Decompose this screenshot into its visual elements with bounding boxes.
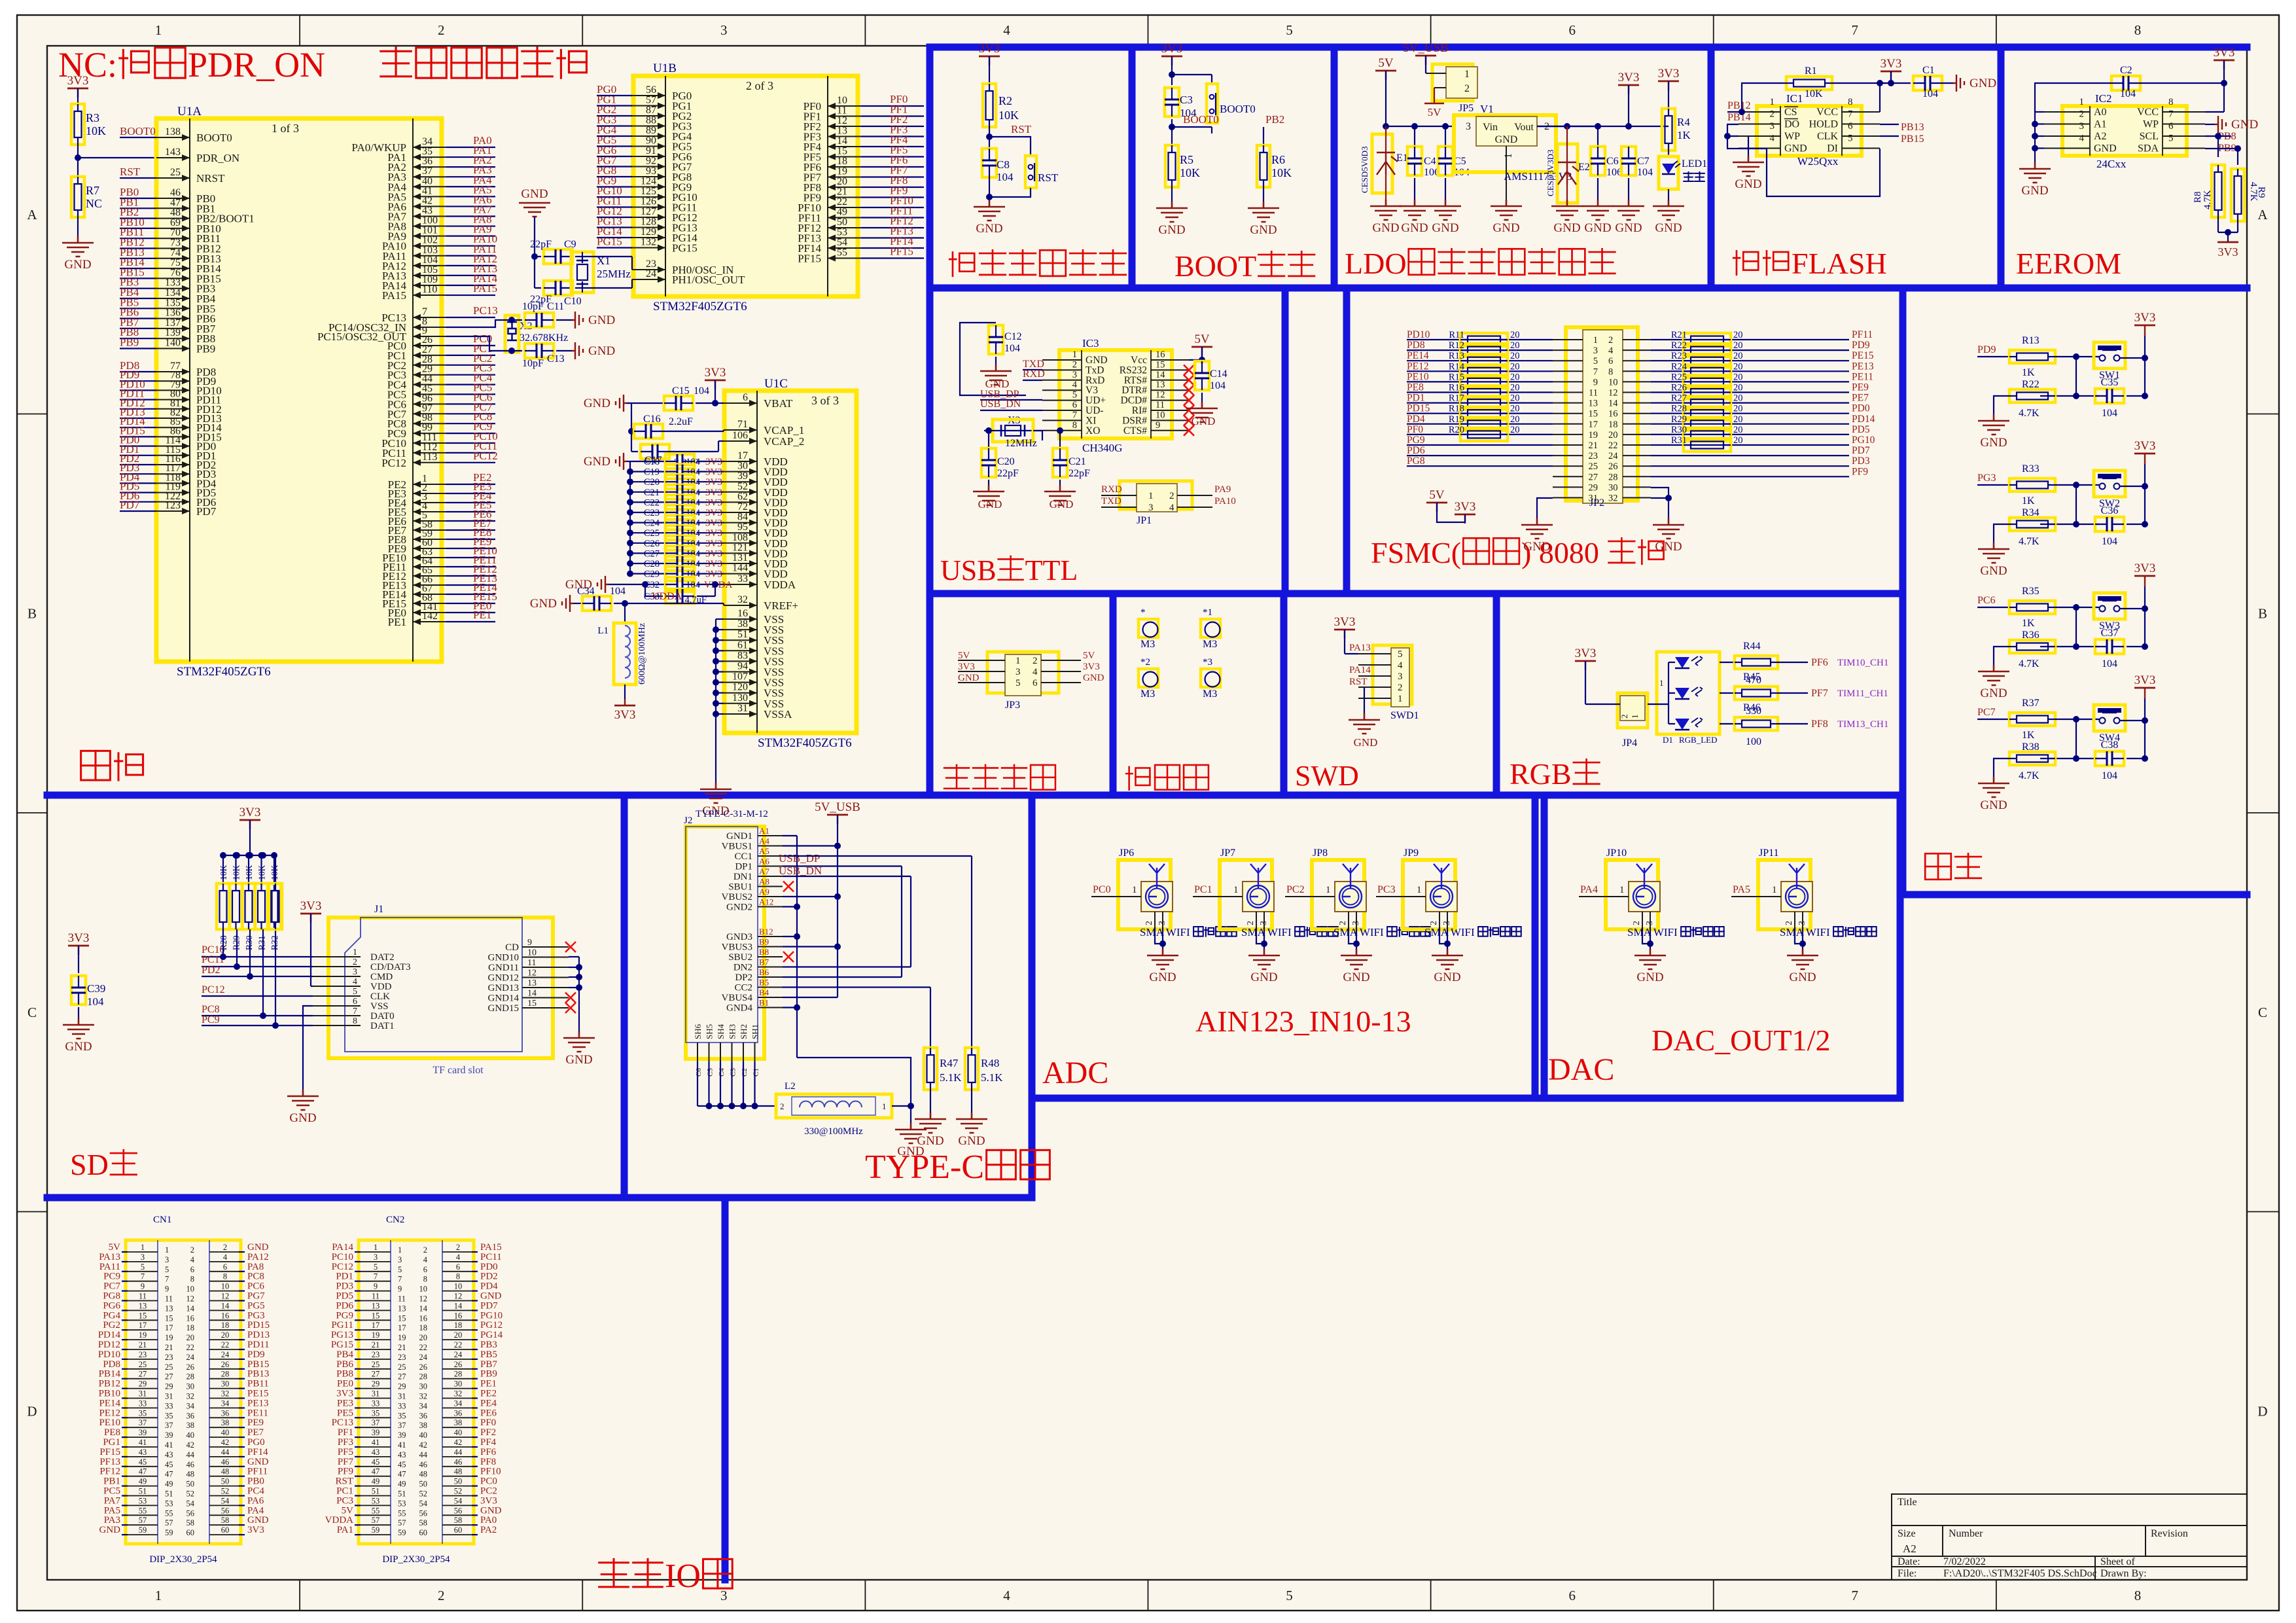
resistor R34 4.7K xyxy=(2040,524,2099,525)
svg-text:54: 54 xyxy=(221,1496,230,1505)
ground under C12 xyxy=(980,365,1012,385)
capacitor C20 104 xyxy=(627,478,633,485)
svg-text:11: 11 xyxy=(165,1294,173,1304)
svg-text:2: 2 xyxy=(190,1245,194,1255)
svg-text:PA5: PA5 xyxy=(1733,884,1750,895)
svg-text:C24: C24 xyxy=(644,518,660,529)
svg-text:20: 20 xyxy=(1733,361,1743,372)
svg-text:1: 1 xyxy=(1630,715,1640,719)
resistor R45 330 xyxy=(1720,692,1735,694)
svg-text:GND: GND xyxy=(1735,177,1761,191)
svg-text:PE11: PE11 xyxy=(1852,371,1873,382)
svg-text:10: 10 xyxy=(837,95,847,106)
svg-text:95: 95 xyxy=(737,522,748,533)
svg-text:27: 27 xyxy=(165,1372,173,1382)
svg-text:2: 2 xyxy=(1429,921,1439,925)
svg-text:CMD: CMD xyxy=(370,972,393,982)
svg-text:C37: C37 xyxy=(2101,628,2119,639)
svg-text:19: 19 xyxy=(837,166,847,177)
wire 3V3 to R3 xyxy=(77,88,79,105)
svg-text:31: 31 xyxy=(1589,493,1598,504)
svg-text:28: 28 xyxy=(186,1372,195,1382)
svg-text:39: 39 xyxy=(398,1431,406,1440)
svg-text:16: 16 xyxy=(419,1313,428,1323)
svg-text:8: 8 xyxy=(2134,1588,2142,1603)
svg-text:GND: GND xyxy=(976,222,1002,236)
svg-text:20: 20 xyxy=(1510,425,1520,435)
svg-text:32: 32 xyxy=(1608,493,1618,504)
svg-text:23: 23 xyxy=(372,1350,380,1359)
svg-text:15: 15 xyxy=(527,999,537,1008)
svg-text:7/02/2022: 7/02/2022 xyxy=(1943,1556,1986,1567)
svg-text:1: 1 xyxy=(155,1588,162,1603)
svg-text:25: 25 xyxy=(139,1360,147,1369)
svg-text:14: 14 xyxy=(186,1304,195,1313)
svg-text:GND11: GND11 xyxy=(488,963,519,973)
svg-text:C2: C2 xyxy=(741,1068,749,1077)
svg-text:PB13: PB13 xyxy=(247,1369,269,1380)
svg-text:GND: GND xyxy=(584,397,610,410)
svg-text:31: 31 xyxy=(372,1389,380,1399)
svg-text:PD2: PD2 xyxy=(202,965,220,976)
svg-text:Vout: Vout xyxy=(1514,122,1534,133)
svg-text:VCC: VCC xyxy=(1816,107,1838,118)
capacitor C19 104 xyxy=(627,469,633,475)
reset button xyxy=(1025,156,1036,188)
svg-text:3V3: 3V3 xyxy=(247,1525,264,1535)
svg-text:PA9: PA9 xyxy=(1214,484,1231,495)
svg-text:55: 55 xyxy=(165,1508,173,1518)
svg-text:PD8: PD8 xyxy=(1407,340,1425,351)
svg-text:PE4: PE4 xyxy=(480,1398,497,1408)
svg-text:C: C xyxy=(27,1005,37,1020)
svg-text:34: 34 xyxy=(186,1401,195,1410)
jumper JP5 xyxy=(1432,64,1473,101)
svg-text:600Ω@100MHz: 600Ω@100MHz xyxy=(637,623,647,685)
svg-text:File:: File: xyxy=(1898,1568,1916,1579)
svg-text:29: 29 xyxy=(1589,482,1598,493)
svg-text:38: 38 xyxy=(737,618,748,630)
svg-text:5: 5 xyxy=(141,1262,145,1272)
svg-text:4: 4 xyxy=(2079,134,2085,144)
svg-text:PA8: PA8 xyxy=(247,1262,264,1272)
svg-text:C4: C4 xyxy=(1424,156,1436,167)
svg-text:49: 49 xyxy=(372,1477,380,1486)
svg-text:C27: C27 xyxy=(644,548,660,559)
svg-text:50: 50 xyxy=(454,1477,463,1486)
jumper JP3 xyxy=(987,652,1059,693)
svg-text:PD6: PD6 xyxy=(1407,445,1425,456)
svg-text:3V3: 3V3 xyxy=(2134,439,2156,453)
svg-text:PF9: PF9 xyxy=(1852,466,1868,477)
svg-text:JP6: JP6 xyxy=(1119,847,1134,859)
ground boot xyxy=(1156,202,1188,222)
CC2 wire to R47 xyxy=(783,986,930,988)
wire R36 to ground xyxy=(1994,647,2009,665)
svg-text:PD5: PD5 xyxy=(1852,424,1870,435)
svg-text:R11: R11 xyxy=(1449,330,1464,340)
resistor R33 1K xyxy=(2009,478,2055,491)
svg-text:PA1: PA1 xyxy=(337,1525,353,1535)
svg-text:104: 104 xyxy=(1210,380,1226,391)
svg-text:GND: GND xyxy=(247,1242,269,1253)
decoupling caps C18-C29 with 3V3 flags xyxy=(627,461,630,462)
svg-text:20: 20 xyxy=(1733,372,1743,382)
resistor R19 20 xyxy=(1460,418,1508,431)
svg-text:14: 14 xyxy=(221,1301,230,1310)
svg-text:5V: 5V xyxy=(958,651,970,661)
svg-text:5V: 5V xyxy=(342,1505,354,1516)
svg-text:23: 23 xyxy=(165,1353,173,1362)
resistor R8 4.7K xyxy=(2217,136,2219,157)
svg-text:107: 107 xyxy=(732,671,748,683)
svg-text:20: 20 xyxy=(1733,351,1743,361)
svg-text:C6: C6 xyxy=(695,1068,703,1077)
svg-text:22: 22 xyxy=(1608,440,1618,451)
svg-text:DIP_2X30_2P54: DIP_2X30_2P54 xyxy=(149,1554,217,1565)
svg-text:18: 18 xyxy=(837,156,847,167)
capacitor C20 22pF xyxy=(981,448,996,477)
resistor R2 10K xyxy=(983,84,996,127)
svg-text:37: 37 xyxy=(372,1418,380,1427)
svg-text:DAC: DAC xyxy=(1548,1052,1614,1087)
ground SW1 xyxy=(1978,414,2009,435)
wires sd gnd right rail xyxy=(569,956,579,957)
svg-text:IO: IO xyxy=(665,1558,701,1595)
svg-text:LDO: LDO xyxy=(1345,247,1407,280)
svg-text:49: 49 xyxy=(139,1477,147,1486)
svg-text:PG8: PG8 xyxy=(103,1291,120,1302)
svg-text:22pF: 22pF xyxy=(530,239,552,250)
svg-text:GND: GND xyxy=(588,344,615,358)
svg-text:R27: R27 xyxy=(1671,393,1687,404)
svg-text:GND15: GND15 xyxy=(488,1003,520,1014)
svg-text:12: 12 xyxy=(419,1294,428,1304)
svg-text:30: 30 xyxy=(737,461,748,472)
svg-text:PF6: PF6 xyxy=(480,1447,497,1457)
svg-text:R46: R46 xyxy=(1743,702,1761,713)
svg-text:4: 4 xyxy=(1072,380,1078,390)
svg-text:B8: B8 xyxy=(759,947,769,957)
svg-text:USB_DN: USB_DN xyxy=(980,399,1021,410)
svg-text:GND: GND xyxy=(1250,223,1277,237)
svg-text:58: 58 xyxy=(454,1516,463,1525)
svg-text:5: 5 xyxy=(398,1265,402,1274)
svg-text:8: 8 xyxy=(423,1275,427,1284)
svg-text:PB2: PB2 xyxy=(1265,113,1284,126)
svg-text:2: 2 xyxy=(1072,359,1077,370)
wire C9 C10 left rail xyxy=(534,217,535,288)
svg-text:PA14: PA14 xyxy=(1349,665,1371,675)
svg-text:8: 8 xyxy=(456,1272,460,1281)
svg-text:TIM11_CH1: TIM11_CH1 xyxy=(1837,688,1888,699)
svg-text:4: 4 xyxy=(1033,667,1038,677)
svg-text:1K: 1K xyxy=(2022,730,2035,741)
svg-text:5: 5 xyxy=(353,987,357,997)
wire swd gnd xyxy=(1364,687,1365,713)
svg-text:C1: C1 xyxy=(752,1068,760,1077)
svg-text:12: 12 xyxy=(527,969,537,978)
svg-text:16: 16 xyxy=(1608,409,1618,419)
svg-text:TIM10_CH1: TIM10_CH1 xyxy=(1837,658,1888,668)
svg-text:10: 10 xyxy=(454,1282,463,1291)
svg-text:43: 43 xyxy=(139,1448,147,1457)
svg-text:44: 44 xyxy=(186,1450,195,1459)
svg-text:R4: R4 xyxy=(1677,116,1690,128)
wire R3 to junction and PDR_ON xyxy=(77,145,79,177)
svg-text:29: 29 xyxy=(398,1382,406,1391)
svg-text:R44: R44 xyxy=(1743,641,1761,652)
svg-text:20: 20 xyxy=(1733,393,1743,404)
svg-text:STM32F405ZGT6: STM32F405ZGT6 xyxy=(758,736,852,750)
svg-text:92: 92 xyxy=(646,156,656,167)
svg-text:BOOT0: BOOT0 xyxy=(196,132,232,144)
svg-text:2: 2 xyxy=(1398,683,1403,693)
svg-text:C38: C38 xyxy=(2101,740,2119,751)
svg-text:12MHz: 12MHz xyxy=(1005,438,1037,449)
capacitor C25 104 xyxy=(627,529,633,536)
svg-text:41: 41 xyxy=(139,1438,147,1447)
LDO output rail xyxy=(1564,123,1570,130)
svg-text:51: 51 xyxy=(165,1489,173,1499)
svg-text:PD13: PD13 xyxy=(247,1330,270,1340)
svg-text:WP: WP xyxy=(1784,131,1800,142)
svg-text:4: 4 xyxy=(190,1255,195,1264)
svg-text:30: 30 xyxy=(419,1382,428,1391)
svg-text:CLK: CLK xyxy=(1817,131,1838,142)
svg-text:PD0: PD0 xyxy=(1852,403,1870,414)
svg-text:PG15: PG15 xyxy=(597,236,622,248)
svg-text:47: 47 xyxy=(372,1467,380,1476)
resistor R31 20 xyxy=(1684,438,1731,452)
svg-text:57: 57 xyxy=(165,1518,173,1527)
svg-text:GND: GND xyxy=(1354,736,1378,749)
svg-text:20: 20 xyxy=(1733,383,1743,393)
svg-text:C14: C14 xyxy=(1210,368,1227,380)
svg-text:C29: C29 xyxy=(644,569,660,580)
capacitor C24 104 xyxy=(627,520,633,526)
capacitor C36 104 xyxy=(2095,517,2124,531)
svg-text:20: 20 xyxy=(1733,330,1743,340)
svg-text:C5: C5 xyxy=(707,1068,715,1077)
no connect marks on CD GND14 GND15 xyxy=(565,942,576,952)
svg-text:8: 8 xyxy=(1072,420,1077,431)
resistor R31 10K sd pullup xyxy=(258,852,265,859)
svg-text:45: 45 xyxy=(165,1460,173,1469)
jumper JP4 xyxy=(1617,693,1648,728)
capacitor C7 104 xyxy=(1621,147,1636,175)
svg-text:GND: GND xyxy=(480,1291,502,1302)
svg-text:10K: 10K xyxy=(219,865,228,881)
svg-text:PC13: PC13 xyxy=(332,1418,353,1428)
svg-text:L2: L2 xyxy=(785,1081,796,1092)
svg-text:7: 7 xyxy=(1852,22,1859,38)
svg-text:15: 15 xyxy=(372,1311,380,1320)
svg-text:GND: GND xyxy=(1372,221,1399,235)
svg-text:GND: GND xyxy=(1083,673,1104,683)
pullup connection dots sd xyxy=(222,929,224,957)
svg-text:15: 15 xyxy=(1156,359,1165,370)
svg-text:SMA WIFI: SMA WIFI xyxy=(1627,926,1678,938)
resistor R26 20 xyxy=(1684,386,1731,399)
ground eeprom xyxy=(2019,162,2051,183)
svg-text:DP2: DP2 xyxy=(735,972,752,983)
resistor R3 xyxy=(71,104,84,145)
svg-text:54: 54 xyxy=(186,1499,195,1508)
svg-text:46: 46 xyxy=(419,1460,428,1469)
svg-text:3: 3 xyxy=(1398,671,1403,682)
svg-text:JP7: JP7 xyxy=(1220,847,1235,859)
svg-text:CTS#: CTS# xyxy=(1123,425,1147,437)
svg-text:GND: GND xyxy=(1784,143,1807,154)
svg-text:20: 20 xyxy=(1510,340,1520,351)
resistor R14 20 xyxy=(1460,365,1508,378)
svg-text:20: 20 xyxy=(1510,414,1520,425)
svg-text:26: 26 xyxy=(1608,461,1618,472)
svg-text:GND: GND xyxy=(521,187,548,201)
svg-text:51: 51 xyxy=(139,1487,147,1496)
wire switch to 3V3 rail xyxy=(2120,608,2145,609)
wire JP7 to ground xyxy=(1256,927,1264,944)
capacitor C39 104 xyxy=(71,976,86,1005)
capacitor C9 22pF xyxy=(544,249,573,264)
wire pin30-32 to gnd right xyxy=(1651,488,1669,518)
svg-text:CESD3V3D3: CESD3V3D3 xyxy=(1545,149,1555,196)
svg-text:PD7: PD7 xyxy=(480,1300,498,1311)
svg-text:TIM13_CH1: TIM13_CH1 xyxy=(1837,719,1888,730)
svg-text:26: 26 xyxy=(221,1360,230,1369)
svg-text:1 of 3: 1 of 3 xyxy=(272,122,299,135)
svg-text:PB6: PB6 xyxy=(336,1359,353,1370)
resistor R23 20 xyxy=(1684,354,1731,367)
svg-text:43: 43 xyxy=(398,1450,406,1459)
svg-text:5: 5 xyxy=(2168,134,2174,144)
svg-text:VBAT: VBAT xyxy=(764,397,793,410)
svg-text:PE6: PE6 xyxy=(480,1408,497,1418)
svg-text:9: 9 xyxy=(1156,420,1160,431)
svg-text:34: 34 xyxy=(454,1399,463,1408)
svg-text:R32: R32 xyxy=(270,935,279,950)
svg-text:12: 12 xyxy=(837,115,847,126)
svg-text:R25: R25 xyxy=(1671,372,1687,382)
svg-text:60: 60 xyxy=(454,1525,463,1535)
TVS diode E1 CESD5V0D3 xyxy=(1372,134,1392,193)
svg-text:SH5: SH5 xyxy=(705,1024,715,1039)
svg-text:PE13: PE13 xyxy=(247,1398,269,1408)
svg-text:104: 104 xyxy=(997,171,1014,183)
svg-text:B1: B1 xyxy=(759,998,769,1008)
svg-text:PB14: PB14 xyxy=(99,1369,121,1380)
svg-text:5: 5 xyxy=(374,1262,378,1272)
svg-text:10K: 10K xyxy=(257,865,267,881)
ground typec main xyxy=(895,1123,927,1143)
svg-text:19: 19 xyxy=(372,1330,380,1340)
capacitor C15 104 xyxy=(664,396,693,410)
svg-text:C21: C21 xyxy=(644,488,660,498)
svg-text:6: 6 xyxy=(1608,356,1613,366)
svg-text:VSS: VSS xyxy=(370,1001,389,1012)
svg-text:PA13: PA13 xyxy=(99,1252,120,1262)
ground under R47 xyxy=(915,1113,946,1133)
svg-text:R24: R24 xyxy=(1671,361,1687,372)
svg-text:PF10: PF10 xyxy=(480,1467,501,1477)
svg-text:C4: C4 xyxy=(718,1068,726,1077)
svg-text:58: 58 xyxy=(419,1518,428,1527)
svg-text:29: 29 xyxy=(165,1382,173,1391)
svg-text:7: 7 xyxy=(374,1272,378,1281)
svg-text:29: 29 xyxy=(139,1380,147,1389)
svg-text:32: 32 xyxy=(737,594,748,605)
svg-text:VBUS3: VBUS3 xyxy=(721,942,752,953)
power flag 3V3 below R8 R9 xyxy=(2217,241,2238,243)
svg-text:143: 143 xyxy=(165,147,181,158)
svg-text:C15: C15 xyxy=(672,385,690,397)
svg-text:JP9: JP9 xyxy=(1404,847,1419,859)
svg-text:5: 5 xyxy=(1593,356,1598,366)
svg-text:89: 89 xyxy=(646,125,656,136)
svg-text:11: 11 xyxy=(837,105,847,116)
svg-text:14: 14 xyxy=(419,1304,428,1313)
svg-text:2: 2 xyxy=(438,1588,445,1603)
svg-text:PA7: PA7 xyxy=(104,1495,121,1506)
svg-text:16: 16 xyxy=(1156,349,1165,360)
svg-text:20: 20 xyxy=(1510,372,1520,382)
svg-text:37: 37 xyxy=(165,1421,173,1430)
svg-text:R19: R19 xyxy=(1449,414,1464,425)
capacitor C35 104 xyxy=(2095,389,2124,403)
wire C9/C10 to crystal X1 xyxy=(575,256,582,257)
svg-text:VREF+: VREF+ xyxy=(764,599,798,612)
svg-text:R48: R48 xyxy=(981,1057,999,1069)
svg-text:PD3: PD3 xyxy=(336,1281,353,1292)
svg-text:28: 28 xyxy=(1608,472,1618,482)
resistor R7 xyxy=(71,177,84,217)
wires flash right pins xyxy=(1880,124,1899,125)
svg-text:3V3: 3V3 xyxy=(2218,245,2238,259)
svg-text:5.1K: 5.1K xyxy=(940,1071,962,1084)
mounting hole M3 *3 xyxy=(1201,669,1220,687)
U1A right pins PA group xyxy=(413,147,446,148)
svg-text:PG9: PG9 xyxy=(336,1310,353,1321)
svg-text:17: 17 xyxy=(1589,419,1598,430)
svg-text:PC2: PC2 xyxy=(480,1486,497,1497)
svg-text:R2: R2 xyxy=(998,94,1012,107)
svg-text:27: 27 xyxy=(1589,472,1598,482)
svg-text:4.7K: 4.7K xyxy=(2019,770,2040,781)
svg-text:32: 32 xyxy=(221,1389,230,1399)
svg-text:DAT1: DAT1 xyxy=(370,1021,395,1031)
svg-text:GND: GND xyxy=(1149,971,1176,984)
svg-text:C13: C13 xyxy=(547,353,565,365)
jumper JP1 xyxy=(1120,481,1192,509)
svg-text:126: 126 xyxy=(641,196,656,207)
wire JP8 to ground xyxy=(1349,927,1356,944)
svg-text:PD2: PD2 xyxy=(480,1272,498,1282)
svg-text:RST: RST xyxy=(1038,171,1059,184)
svg-text:6: 6 xyxy=(1568,22,1576,38)
svg-text:PD7: PD7 xyxy=(196,505,217,518)
svg-text:Drawn By:: Drawn By: xyxy=(2100,1568,2147,1579)
svg-text:PA6: PA6 xyxy=(247,1495,264,1506)
svg-text:VBUS1: VBUS1 xyxy=(721,842,752,852)
svg-text:PE1: PE1 xyxy=(480,1379,497,1389)
svg-text:3: 3 xyxy=(1148,503,1154,513)
svg-text:PB7: PB7 xyxy=(480,1359,497,1370)
svg-text:57: 57 xyxy=(398,1518,406,1527)
svg-text:GND: GND xyxy=(584,455,610,469)
CC1 wire to R48 xyxy=(783,855,972,857)
svg-text:56: 56 xyxy=(454,1506,463,1515)
